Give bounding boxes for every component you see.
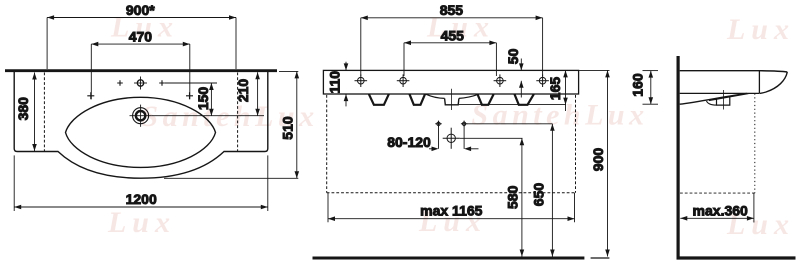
dim 80-120 (429, 127, 479, 152)
supply cross left (435, 121, 441, 127)
svg-text:470: 470 (129, 28, 153, 44)
supply cross right (461, 121, 467, 127)
svg-text:max 1165: max 1165 (420, 203, 482, 219)
dim 510 (164, 71, 299, 178)
mounting hole 3 (494, 74, 507, 87)
svg-text:210: 210 (235, 79, 251, 103)
tab A (369, 94, 389, 105)
svg-text:650: 650 (531, 183, 547, 207)
dim max.360 (680, 193, 755, 222)
dashed horizontal (327, 192, 576, 194)
tab D (515, 94, 534, 105)
dim 650 (550, 124, 555, 257)
apron bottom line (459, 104, 566, 106)
beak lower edge (760, 72, 788, 93)
svg-text:80-120: 80-120 (387, 134, 431, 150)
dim 455 (404, 41, 496, 77)
svg-text:50: 50 (505, 48, 521, 64)
svg-text:510: 510 (280, 116, 296, 140)
mounting hole 1 (355, 74, 368, 87)
floor line front (thick) (313, 257, 585, 260)
dashed drop right (575, 95, 577, 193)
dim max 1165 (328, 193, 575, 222)
dotted projection line (754, 94, 756, 194)
svg-text:855: 855 (440, 2, 464, 18)
mounting hole 4 (536, 74, 549, 87)
dashed drop left (326, 95, 328, 193)
drain plan (133, 108, 149, 124)
svg-text:455: 455 (441, 27, 465, 43)
svg-text:Lux: Lux (726, 13, 795, 46)
svg-text:150: 150 (195, 87, 211, 111)
front edge vertical (758, 71, 760, 94)
svg-text:Lux: Lux (107, 206, 176, 239)
tap hole center (137, 80, 143, 86)
dim 210 (255, 72, 260, 116)
floor line side (thick) (677, 256, 796, 259)
svg-text:900*: 900* (126, 2, 155, 18)
dim 855 (361, 15, 543, 76)
dim 50 (519, 59, 524, 98)
dim 1200 (14, 155, 268, 211)
side hole cross left (87, 92, 94, 99)
wall line (thick) plan (5, 69, 277, 72)
wall line side (thick) (676, 56, 679, 258)
dashed overflow line left (43, 73, 45, 152)
side hole cross right (186, 92, 193, 99)
svg-text:900: 900 (590, 148, 606, 172)
drain extension line front (460, 137, 523, 139)
svg-text:580: 580 (504, 185, 520, 209)
bowl rear slope side (709, 94, 749, 101)
rim bottom line side (680, 92, 760, 94)
tab C (478, 94, 494, 105)
basin profile side (680, 71, 788, 72)
bowl front arc side (707, 101, 717, 105)
svg-text:1200: 1200 (126, 191, 157, 207)
svg-text:110: 110 (326, 71, 342, 94)
svg-text:380: 380 (15, 97, 31, 121)
dim 160 (643, 71, 659, 105)
dim 165 (563, 70, 568, 111)
tap cross left (117, 80, 123, 86)
dim 580 (520, 138, 525, 256)
dashed overflow line right (237, 73, 239, 152)
dim 110 (344, 62, 349, 107)
drain stub front (445, 98, 459, 104)
underside curve side (680, 93, 747, 104)
svg-text:max.360: max.360 (693, 203, 748, 219)
svg-text:SantehLux: SantehLux (471, 99, 648, 132)
drain extension line (152, 115, 264, 117)
tap extension line (165, 82, 217, 84)
dim 900* (47, 15, 236, 69)
mounting hole 2 (397, 74, 410, 87)
svg-text:160: 160 (630, 73, 646, 97)
basin bar front (323, 70, 578, 94)
dim 470 (91, 42, 190, 100)
watermark SantehLux row (107, 11, 795, 242)
dim 900 (579, 70, 610, 256)
tab B (410, 94, 426, 105)
dim 150 (209, 83, 214, 116)
drain center line front (451, 89, 453, 110)
dim 380 (32, 73, 37, 152)
tap cross right (159, 80, 165, 86)
drain axis side (723, 90, 725, 110)
svg-text:165: 165 (547, 77, 563, 101)
basin outline plan (14, 72, 268, 178)
center dish (426, 94, 479, 98)
supply extension line (467, 123, 553, 125)
trap rect side (717, 97, 730, 105)
floor tick under 900 (591, 257, 610, 259)
bowl lens (66, 97, 216, 167)
drain symbol front (443, 128, 460, 149)
